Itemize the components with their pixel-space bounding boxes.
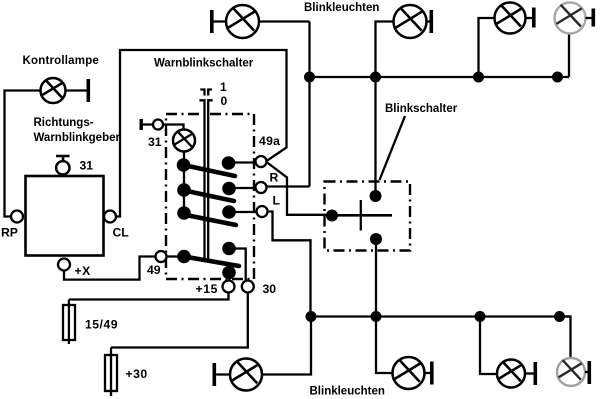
- wire: top bus: [310, 76, 570, 78]
- switch lever Blinkschalter: [332, 214, 392, 217]
- junction dot top bus at lamp L3: [473, 72, 484, 83]
- wire: lamp L4 to bus: [568, 34, 570, 77]
- wire: lamp to left contact column: [183, 152, 185, 214]
- svg-text:Blinkleuchten: Blinkleuchten: [304, 2, 379, 14]
- junction dot top bus at R feed: [304, 72, 315, 83]
- fuse F2 +30: [105, 348, 117, 397]
- wire: Kontrollampe to RP: [5, 91, 41, 217]
- svg-text:0: 0: [221, 94, 228, 108]
- wire: bus to lamp B4: [560, 317, 571, 359]
- junction dot bottom bus at Blinkschalter: [371, 311, 382, 322]
- wire: L down to bottom bus: [268, 212, 311, 317]
- lamp B3 (bottom Blinkleuchte): [497, 360, 525, 388]
- terminal 30: [242, 281, 254, 293]
- lamp inside Warnblinkschalter: [173, 130, 195, 152]
- wire: terminal 49a up over the top and down to CL: [116, 50, 287, 217]
- contact dot left 4: [177, 250, 191, 264]
- terminal bar of lamp B1: [213, 363, 231, 386]
- wire: Blinkschalter bottom to bottom bus: [375, 239, 377, 317]
- svg-text:15/49: 15/49: [85, 318, 118, 332]
- terminal 49: [156, 251, 167, 262]
- wire: +X to terminal 49: [64, 257, 156, 280]
- wire: bus to lamp B2: [376, 317, 393, 374]
- wire: lamp L2 to bus and down to Blinkschalter top contact: [376, 22, 394, 191]
- wire: contact D to terminal 30: [236, 249, 246, 282]
- switch shaft position marks (0): [199, 100, 212, 107]
- junction dot bottom bus at lamp B4: [554, 311, 565, 322]
- svg-text:Richtungs-: Richtungs-: [34, 117, 94, 129]
- junction dot top bus at Blinkschalter feed: [370, 72, 381, 83]
- lamp L4 (top right Blinkleuchte, faded): [555, 3, 586, 34]
- terminal bar of lamp L2: [427, 10, 434, 33]
- lever cross bar: [360, 200, 362, 231]
- switch shaft position marks (1): [200, 90, 212, 96]
- terminal CL: [104, 211, 116, 223]
- svg-text:Blinkschalter: Blinkschalter: [385, 103, 458, 115]
- contact dot Blinkschalter top: [370, 190, 382, 202]
- contact dot left 3: [177, 206, 191, 220]
- wire: bottom bus: [311, 315, 571, 317]
- terminal 31 of relay (with cap): [56, 156, 70, 175]
- wire: 49a fork down to Blinkschalter feed: [267, 162, 288, 187]
- junction dot top bus at lamp L4: [552, 72, 563, 83]
- svg-text:+30: +30: [126, 367, 148, 381]
- terminal bar of lamp B2: [425, 362, 434, 385]
- wire: contact C to L: [235, 211, 257, 213]
- terminal RP: [11, 211, 23, 223]
- terminal +15: [223, 281, 235, 293]
- wire: contact A to 49a: [235, 161, 256, 163]
- switch shaft (two parallel lines): [205, 107, 209, 261]
- contact arm 2: [182, 190, 234, 201]
- terminal 49a: [256, 156, 267, 167]
- svg-text:Warnblinkgeber: Warnblinkgeber: [34, 132, 121, 144]
- wire: R to top bus feed: [267, 185, 310, 187]
- wire: junction to Blinkschalter left contact: [287, 187, 327, 215]
- contact arm 1: [181, 165, 235, 177]
- label Richtungs-Warnblinkgeber: [34, 117, 121, 144]
- svg-text:R: R: [270, 171, 279, 185]
- terminal +X: [58, 259, 70, 271]
- svg-text:Kontrollampe: Kontrollampe: [23, 55, 100, 67]
- fuse F1 15/49: [63, 300, 75, 345]
- terminal bar of lamp B4: [585, 361, 591, 384]
- svg-text:RP: RP: [1, 226, 18, 240]
- junction dot bottom bus at lamp B3: [475, 311, 486, 322]
- wire: bottom-left lamp to bus: [262, 317, 311, 375]
- pointer line from label to box: [380, 116, 406, 180]
- svg-text:49: 49: [147, 263, 161, 277]
- wire: lamp L1 to bus: [259, 20, 310, 22]
- lamp B2 (bottom Blinkleuchte): [393, 357, 425, 389]
- wire: contact B to R: [235, 187, 256, 189]
- wire: lamp L3 to bus: [479, 18, 495, 77]
- terminal bar of Kontrollampe: [66, 79, 91, 102]
- junction dot bottom bus left: [306, 311, 317, 322]
- contact arm 4: [184, 257, 239, 267]
- contact dot right B: [222, 182, 236, 196]
- terminal bar of lamp L4: [586, 9, 596, 27]
- svg-text:+15: +15: [196, 282, 218, 296]
- svg-text:30: 30: [263, 282, 277, 296]
- wire: bus to lamp B3: [480, 317, 497, 375]
- svg-text:+X: +X: [75, 264, 92, 278]
- svg-text:L: L: [273, 193, 281, 207]
- contact dot left 1: [177, 158, 191, 172]
- dash-dot box Blinkschalter: [325, 182, 411, 251]
- contact dot Blinkschalter left: [326, 210, 338, 222]
- terminal 31 (switch): [153, 120, 163, 130]
- svg-text:CL: CL: [113, 226, 130, 240]
- svg-text:31: 31: [80, 159, 94, 173]
- contact dot right E: [222, 266, 236, 280]
- terminal bar at switch terminal 31: [140, 119, 154, 130]
- terminal bar of lamp L3: [526, 8, 536, 28]
- wire: 49 to lower contact: [167, 255, 178, 257]
- contact dot right D: [222, 242, 236, 256]
- contact dot right C: [222, 205, 236, 219]
- wire: top feed from lamp1 down through top bus to terminal R: [308, 22, 310, 187]
- lamp L2 (top Blinkleuchte): [394, 5, 427, 38]
- contact arm 3: [181, 214, 236, 225]
- terminal L: [257, 206, 268, 217]
- lamp B1 (bottom left Blinkleuchte): [230, 359, 262, 391]
- wire: +15 to fuse 15/49: [69, 293, 229, 300]
- svg-text:31: 31: [148, 135, 162, 149]
- lamp L1 (top left Blinkleuchte): [226, 5, 259, 38]
- svg-text:Warnblinkschalter: Warnblinkschalter: [154, 57, 254, 69]
- terminal bar of lamp B3: [525, 362, 537, 385]
- contact dot Blinkschalter bottom: [370, 233, 382, 245]
- lamp B4 (bottom right Blinkleuchte, faded): [557, 358, 585, 386]
- relay U1 Richtungs-Warnblinkgeber box: [26, 176, 104, 256]
- svg-text:Blinkleuchten: Blinkleuchten: [310, 386, 385, 398]
- dash-dot box Warnblinkschalter: [166, 114, 254, 279]
- terminal R: [256, 182, 267, 193]
- terminal bar of lamp L1: [210, 10, 227, 33]
- contact dot left 2: [177, 183, 191, 197]
- contact dot right A: [222, 156, 236, 170]
- wire: contact E to +15: [228, 273, 230, 282]
- lamp Kontrollampe: [41, 78, 66, 103]
- svg-text:1: 1: [220, 80, 227, 94]
- lamp L3 (top Blinkleuchte): [495, 3, 526, 34]
- svg-text:49a: 49a: [259, 134, 280, 148]
- wire: 30 to fuse +30: [111, 293, 248, 348]
- wire: terminal 31 to pilot lamp: [163, 125, 184, 131]
